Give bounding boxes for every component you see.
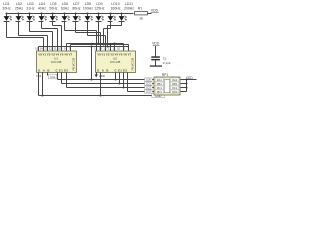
svg-text:G A B: G A B bbox=[38, 69, 50, 73]
LED LD8 100Hz bbox=[83, 2, 93, 21]
svg-text:VDD: VDD bbox=[99, 74, 105, 78]
wire cathode LD8 bbox=[88, 22, 106, 52]
resistor R1 bbox=[135, 7, 148, 21]
svg-text:VDD: VDD bbox=[151, 9, 159, 13]
svg-text:50Hz: 50Hz bbox=[49, 7, 57, 11]
svg-text:RB1: RB1 bbox=[157, 82, 163, 86]
svg-text:LD3: LD3 bbox=[146, 90, 151, 94]
svg-text:R1: R1 bbox=[138, 7, 143, 11]
svg-text:13: 13 bbox=[103, 46, 107, 50]
net label LD0 bbox=[145, 78, 153, 82]
wire net C bbox=[67, 87, 155, 89]
power VDD above C1 bbox=[152, 41, 160, 45]
wire enable branch to net A bbox=[91, 46, 93, 81]
wire cathode LD3 bbox=[30, 22, 53, 52]
svg-text:63Hz: 63Hz bbox=[61, 7, 69, 11]
svg-text:LD1: LD1 bbox=[146, 82, 151, 86]
wire cathode LD10 joins bus line bbox=[103, 22, 111, 46]
svg-text:G A B: G A B bbox=[97, 69, 109, 73]
decoder U1 bbox=[35, 46, 76, 72]
decoder U2 bbox=[94, 46, 135, 72]
wire cathode LD2 bbox=[19, 22, 48, 52]
svg-text:LD9: LD9 bbox=[96, 2, 102, 6]
svg-text:LD2: LD2 bbox=[146, 86, 151, 90]
svg-text:RC2: RC2 bbox=[172, 86, 178, 90]
svg-text:C E1 E2: C E1 E2 bbox=[56, 69, 69, 73]
svg-text:0.1uF: 0.1uF bbox=[163, 61, 171, 65]
wire U2 pin to net D bbox=[127, 73, 129, 92]
net label GND bbox=[152, 94, 165, 98]
svg-text:74LVC138: 74LVC138 bbox=[71, 57, 75, 70]
svg-text:200Hz: 200Hz bbox=[124, 7, 134, 11]
wire RP1 commons to VDD bbox=[181, 79, 197, 92]
wire select line 3 bbox=[39, 47, 129, 52]
svg-text:RD1: RD1 bbox=[157, 90, 163, 94]
svg-text:11: 11 bbox=[54, 46, 57, 50]
svg-text:74LVC138: 74LVC138 bbox=[130, 57, 134, 70]
wire R1 to VDD bbox=[148, 13, 152, 15]
wire net A bbox=[58, 79, 155, 81]
wire cathode LD11 joins bus line bbox=[107, 22, 122, 48]
wire cathode LD9 joins bus line bbox=[98, 22, 100, 45]
wire gnd bus bbox=[39, 95, 153, 97]
svg-text:RD2: RD2 bbox=[172, 90, 178, 94]
svg-text:31Hz: 31Hz bbox=[26, 7, 34, 11]
LED LD1 20Hz bbox=[2, 2, 11, 21]
power VDD top right bbox=[151, 9, 159, 13]
LED LD4 40Hz bbox=[38, 2, 47, 21]
svg-text:15: 15 bbox=[94, 46, 98, 50]
svg-text:Vss: Vss bbox=[50, 75, 56, 79]
svg-text:40Hz: 40Hz bbox=[38, 7, 46, 11]
svg-text:LVC138: LVC138 bbox=[51, 60, 62, 64]
capacitor C1 0.1uF bbox=[151, 46, 171, 66]
net label LD3 bbox=[145, 90, 153, 94]
wire U1 pin to net C bbox=[66, 73, 68, 88]
svg-text:160Hz: 160Hz bbox=[110, 7, 120, 11]
LED LD11 200Hz bbox=[119, 2, 135, 21]
svg-text:RC1: RC1 bbox=[157, 86, 163, 90]
LED LD9 125Hz bbox=[94, 2, 104, 21]
wire U2 pin to net A bbox=[115, 73, 117, 81]
svg-text:14: 14 bbox=[99, 46, 103, 50]
wire U1 pin to net A bbox=[57, 73, 59, 80]
svg-text:LD7: LD7 bbox=[73, 2, 79, 6]
svg-text:C E1 E2: C E1 E2 bbox=[115, 69, 128, 73]
svg-text:RA2: RA2 bbox=[172, 78, 178, 82]
wire cathode LD7 bbox=[76, 22, 101, 52]
wire select line 2 bbox=[71, 44, 129, 52]
wire U1 pin down joins gnd bbox=[39, 73, 44, 97]
power VDD flag on U2 pin bbox=[95, 73, 105, 79]
LED LD7 80Hz bbox=[72, 2, 80, 21]
svg-text:LD11: LD11 bbox=[125, 2, 133, 6]
wire cathode LD6 bbox=[65, 22, 97, 52]
svg-text:LD3: LD3 bbox=[27, 2, 33, 6]
svg-text:12: 12 bbox=[49, 46, 53, 50]
svg-text:VDD: VDD bbox=[152, 41, 160, 45]
LED LD10 160Hz bbox=[108, 2, 121, 21]
svg-text:LD8: LD8 bbox=[85, 2, 91, 6]
wire U2 pin to net B bbox=[119, 73, 121, 85]
svg-text:LD4: LD4 bbox=[39, 2, 45, 6]
svg-text:LD1: LD1 bbox=[3, 2, 9, 6]
svg-text:125Hz: 125Hz bbox=[94, 7, 104, 11]
svg-text:LD0: LD0 bbox=[146, 78, 151, 82]
LED LD5 50Hz bbox=[49, 2, 57, 21]
wire U2 ground pin to gnd bus bbox=[100, 73, 102, 97]
svg-text:LD10: LD10 bbox=[111, 2, 119, 6]
svg-text:13: 13 bbox=[44, 46, 48, 50]
LED LD2 25Hz bbox=[15, 2, 24, 21]
net label LD1 bbox=[145, 82, 153, 86]
wire cathode LD4 bbox=[42, 22, 58, 52]
svg-text:11: 11 bbox=[113, 46, 116, 50]
svg-text:12: 12 bbox=[108, 46, 112, 50]
svg-text:LD5: LD5 bbox=[50, 2, 56, 6]
svg-text:100Hz: 100Hz bbox=[83, 7, 93, 11]
svg-text:10: 10 bbox=[58, 46, 62, 50]
wire U2 pin to net C bbox=[123, 73, 125, 89]
svg-text:10: 10 bbox=[117, 46, 121, 50]
wire cathode LD1 bbox=[7, 22, 44, 52]
svg-text:15: 15 bbox=[35, 46, 39, 50]
svg-text:RB2: RB2 bbox=[172, 82, 178, 86]
wire U1 ground pin down bbox=[36, 73, 38, 96]
wire U1 pin to net B bbox=[61, 73, 63, 84]
wire cathode LD5 bbox=[53, 22, 62, 52]
net label Vss bbox=[48, 73, 57, 79]
svg-text:VDD: VDD bbox=[186, 76, 193, 80]
svg-text:14: 14 bbox=[40, 46, 44, 50]
wire net D bbox=[128, 91, 155, 93]
wire anode bus bbox=[7, 13, 134, 15]
svg-text:LD2: LD2 bbox=[16, 2, 22, 6]
LED LD3 31Hz bbox=[26, 2, 34, 21]
svg-text:80Hz: 80Hz bbox=[72, 7, 80, 11]
LED LD6 63Hz bbox=[61, 2, 70, 21]
svg-text:LD6: LD6 bbox=[62, 2, 68, 6]
svg-text:RP1: RP1 bbox=[162, 73, 169, 77]
svg-text:LVC138: LVC138 bbox=[110, 60, 121, 64]
wire select line 1 bbox=[67, 43, 124, 52]
svg-text:1k: 1k bbox=[139, 16, 143, 20]
wire net B bbox=[62, 83, 155, 85]
svg-text:20Hz: 20Hz bbox=[2, 7, 10, 11]
net label LD2 bbox=[145, 86, 153, 90]
ground bar under C1 bbox=[150, 65, 162, 66]
svg-text:25Hz: 25Hz bbox=[15, 7, 23, 11]
svg-text:RA1: RA1 bbox=[157, 78, 163, 82]
resistor pack RP1 bbox=[154, 73, 180, 95]
